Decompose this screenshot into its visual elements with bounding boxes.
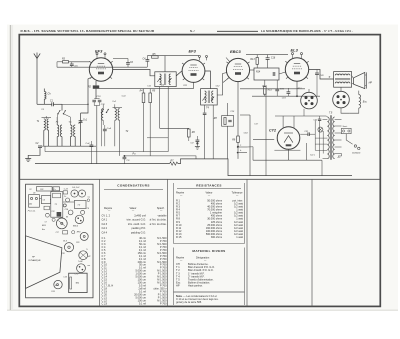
svg-text:R15: R15 [51, 291, 54, 293]
svg-text:CV 1, 2: CV 1, 2 [102, 213, 111, 217]
svg-text:1 watt: 1 watt [236, 235, 243, 239]
resistor R15 [264, 87, 267, 95]
svg-text:à l'int. du châs.: à l'int. du châs. [150, 222, 167, 226]
T3 B+ lead [164, 56, 166, 72]
svg-text:C.23: C.23 [64, 189, 68, 191]
resistor R13 [256, 58, 258, 65]
wire T3 return [167, 87, 169, 152]
svg-text:Cv1,Cv2: Cv1,Cv2 [72, 187, 80, 189]
T4 to V3 grid [217, 73, 227, 96]
padding caps CA2 CA4 [90, 144, 94, 146]
svg-text:CA 2: CA 2 [102, 226, 108, 230]
svg-text:Tr: Tr [328, 77, 330, 79]
B plus bus mid [252, 95, 320, 97]
tube EBC3 top view [75, 215, 83, 223]
svg-text:DYNAMIQUE: DYNAMIQUE [29, 259, 42, 262]
svg-text:gonéry de la série 505.: gonéry de la série 505. [176, 300, 202, 304]
section divider horizontal [19, 178, 380, 180]
svg-text:EBC3: EBC3 [230, 49, 241, 54]
tube V1 EF3 [89, 58, 112, 81]
T4 trimmers [202, 97, 205, 101]
transformer T5 block [69, 273, 87, 292]
socket S2 [333, 91, 350, 108]
svg-text:Prise ant.: Prise ant. [28, 209, 36, 212]
V2 top terminals [199, 55, 201, 57]
svg-text:C6: C6 [87, 208, 89, 210]
svg-text:CY2: CY2 [269, 129, 276, 133]
top line to V2 [147, 55, 199, 57]
ground bus [35, 163, 170, 165]
power transformer T5 [327, 117, 329, 159]
svg-text:300 ohms: 300 ohms [211, 235, 223, 239]
svg-text:P 760: P 760 [160, 301, 167, 305]
svg-text:Ca1: Ca1 [112, 101, 116, 103]
tube EF3 top view [56, 218, 67, 229]
svg-text:Tolérance: Tolérance [232, 192, 243, 195]
scanner left edge smudge [10, 25, 11, 310]
oscillator band switch [102, 109, 104, 112]
V2 plate to T4 [205, 71, 211, 89]
svg-text:Cv1: Cv1 [83, 120, 88, 122]
svg-text:padding P.O.: padding P.O. [131, 226, 146, 230]
mains cord and plug [346, 134, 352, 145]
shelf under CY2 [253, 139, 274, 141]
output terminals a b [238, 146, 247, 148]
svg-text:LA SCHEMATHEQUE DE RADIO-PLANS: LA SCHEMATHEQUE DE RADIO-PLANS [261, 29, 321, 33]
svg-text:C12: C12 [51, 211, 54, 213]
oscillator coil T2 [115, 109, 117, 121]
AVC line [45, 151, 168, 153]
socket S1 [301, 92, 318, 109]
speaker [354, 72, 365, 88]
tube V5 CY2 [277, 127, 300, 150]
svg-text:110/220v: 110/220v [352, 152, 361, 154]
svg-text:Valeur: Valeur [129, 207, 136, 210]
svg-text:CA 3: CA 3 [102, 222, 108, 226]
capacitor C6 [126, 62, 130, 64]
svg-text:Spécif.: Spécif. [157, 207, 165, 210]
svg-text:C 23: C 23 [102, 301, 108, 305]
svg-text:C16: C16 [271, 58, 276, 60]
V4 cathode [296, 81, 298, 96]
svg-text:Sect.: Sect. [343, 125, 348, 128]
svg-text:R1: R1 [66, 217, 68, 219]
chassis layout box [26, 184, 93, 298]
coil T1 G.O. [70, 125, 72, 137]
socket S1 lead down [303, 109, 305, 116]
excitation coil [359, 95, 361, 108]
svg-text:Ant: Ant [28, 203, 32, 206]
svg-text:padding G.O.: padding G.O. [131, 230, 146, 234]
capacitor C4 [146, 59, 150, 61]
small bottom circle [57, 284, 59, 286]
tube EF3b top view [80, 232, 88, 240]
tube V3 EBC3 [226, 58, 249, 81]
coupling box R14 [254, 68, 279, 80]
svg-text:Cv: Cv [53, 189, 55, 191]
svg-text:Ch: Ch [43, 199, 45, 201]
wire mf return lines [147, 137, 168, 139]
svg-text:Désignation: Désignation [196, 256, 210, 259]
svg-text:C2: C2 [29, 189, 31, 191]
column rule 1 [99, 179, 101, 306]
IF transformer T3 [155, 72, 176, 87]
svg-text:EF3: EF3 [189, 49, 197, 54]
T3 trimmers [157, 78, 160, 82]
heater taps to T5 [315, 137, 327, 139]
capacitor C3 [70, 63, 74, 65]
pilot lamp [318, 127, 323, 132]
resistor R4 [142, 93, 145, 103]
V3 cathode chain [237, 82, 239, 136]
line y88.8 [240, 88, 305, 90]
capacitor C20 [315, 72, 319, 74]
svg-text:C18: C18 [61, 253, 64, 255]
svg-text:Repère: Repère [176, 192, 185, 195]
svg-text:S. /: S. / [190, 29, 195, 33]
resistor R6 [188, 129, 191, 137]
column rule 2 [167, 179, 169, 306]
svg-text:Tr.HP: Tr.HP [78, 261, 83, 263]
heater mesh verticals [314, 121, 316, 151]
plate to T3 [113, 70, 155, 76]
transformer taps [335, 119, 342, 121]
svg-text:Valeur: Valeur [205, 192, 212, 195]
PU line [124, 156, 196, 159]
column rule 4 [311, 179, 313, 306]
header rule segment [217, 30, 258, 32]
capacitor C18 [287, 91, 291, 93]
V1 top terminals [96, 53, 98, 55]
svg-text:R11: R11 [183, 85, 187, 87]
svg-text:- N° 175 - ANNEE 1951 -: - N° 175 - ANNEE 1951 - [322, 29, 353, 33]
IF transformer T4 [201, 89, 218, 105]
svg-text:CA 4: CA 4 [102, 230, 108, 234]
svg-text:2x490 cmf: 2x490 cmf [134, 213, 146, 217]
svg-text:Cv: Cv [64, 196, 66, 198]
svg-text:R14: R14 [256, 71, 261, 74]
antenna terminal box [29, 195, 40, 208]
top line cluster C [246, 54, 288, 56]
svg-text:C19: C19 [63, 276, 66, 278]
table RESISTANCES [174, 183, 245, 244]
svg-text:exc: exc [87, 265, 90, 267]
V3 diode leads [226, 58, 230, 62]
variable capacitor CV1 [79, 120, 83, 122]
svg-text:0,1 mf: 0,1 mf [139, 301, 146, 305]
ground at C9 [195, 146, 200, 148]
CY2 top lead [282, 116, 284, 128]
CY2 bottom leads [288, 149, 290, 160]
svg-text:R10: R10 [263, 86, 268, 88]
vertical feeders [265, 89, 267, 96]
svg-text:R13: R13 [250, 59, 255, 61]
resistor R3 [63, 61, 69, 63]
svg-text:à l'int. du châs.: à l'int. du châs. [150, 218, 167, 222]
block T1 [51, 192, 63, 218]
svg-text:HP: HP [176, 284, 180, 288]
cathode resistor R2 [93, 85, 99, 88]
node bus left coils [44, 145, 96, 147]
band switch [61, 104, 63, 110]
svg-text:HP: HP [369, 82, 373, 85]
capacitors C10 C11 [92, 99, 96, 101]
coil T1 P.O. [57, 125, 59, 137]
coil block CH [41, 196, 50, 204]
svg-text:R15: R15 [268, 90, 273, 92]
svg-text:C8: C8 [33, 193, 35, 195]
capacitor C8 pu [123, 156, 127, 158]
small parts [66, 198, 70, 202]
svg-text:trim. accord G.O.: trim. accord G.O. [127, 218, 147, 222]
box to V4 grid [250, 69, 254, 71]
svg-text:C11: C11 [147, 86, 151, 88]
dial assembly [37, 187, 53, 191]
svg-text:C23: C23 [40, 189, 43, 191]
speaker trapezoid [26, 236, 62, 289]
column rule 3 [246, 179, 248, 306]
capacitor C16 [266, 57, 270, 59]
capacitor C1 [51, 102, 53, 106]
svg-text:Repère: Repère [176, 256, 185, 259]
V2 cathode [193, 82, 195, 88]
resistor R7 zigzag [170, 162, 178, 165]
svg-text:trim. oscill. G.O.: trim. oscill. G.O. [128, 222, 146, 226]
coil T1 antenna primary [44, 119, 46, 130]
V4 top terminals [292, 53, 294, 55]
line mid [99, 88, 194, 90]
svg-text:EF3: EF3 [95, 49, 103, 54]
capacitor C2 [38, 145, 42, 147]
svg-text:R.M.S. - 175. SILVANIE VICTOR: R.M.S. - 175. SILVANIE VICTOR 5254. 17e … [21, 29, 155, 33]
ground [25, 158, 31, 160]
tube CY2 top view [77, 264, 86, 273]
svg-text:MATERIEL DIVERS: MATERIEL DIVERS [192, 249, 225, 253]
block T2 [74, 200, 86, 208]
svg-text:Haut-parleur.: Haut-parleur. [188, 284, 203, 288]
svg-text:variable: variable [158, 213, 168, 217]
svg-text:Exc: Exc [42, 229, 45, 231]
svg-text:Repère: Repère [104, 207, 113, 210]
svg-text:CA 1: CA 1 [102, 218, 108, 222]
svg-text:EL3: EL3 [291, 48, 299, 53]
V4 plate to output transformer [309, 70, 334, 80]
svg-text:R 15: R 15 [176, 235, 182, 239]
antenna [36, 53, 38, 105]
svg-text:RESISTANCES: RESISTANCES [196, 183, 222, 187]
T4 leads [204, 105, 206, 113]
svg-text:C14: C14 [65, 208, 68, 211]
tube V2 EF3 [182, 60, 205, 83]
coil osc lower [102, 109, 104, 121]
box R11 C13 [222, 116, 234, 127]
output transformer [334, 72, 352, 88]
svg-text:C20: C20 [76, 242, 79, 244]
cap C9 [196, 139, 200, 141]
capacitor C22 top [318, 118, 321, 120]
svg-text:C21: C21 [304, 131, 308, 133]
T3 secondary to V2 grid [176, 71, 182, 76]
grid feed to V1 [81, 78, 91, 114]
resistor R5 top [152, 56, 159, 58]
screen bus [57, 66, 147, 68]
capacitor C21 plate [307, 132, 309, 136]
extra small parts [63, 191, 67, 194]
capacitor C19 [275, 88, 279, 90]
table MATERIEL DIVERS [174, 248, 245, 306]
tube EL3 top view [64, 243, 73, 252]
table CONDENSATEURS [102, 184, 168, 306]
tube V4 EL3 [285, 58, 308, 81]
svg-text:CONDENSATEURS: CONDENSATEURS [117, 184, 150, 188]
resistor R5b [149, 93, 152, 103]
svg-text:Ca: Ca [88, 196, 90, 198]
output transfo on speaker [79, 251, 88, 260]
choke CH [44, 92, 46, 100]
mains switch fuse [342, 128, 352, 133]
lamp circle [54, 280, 62, 288]
